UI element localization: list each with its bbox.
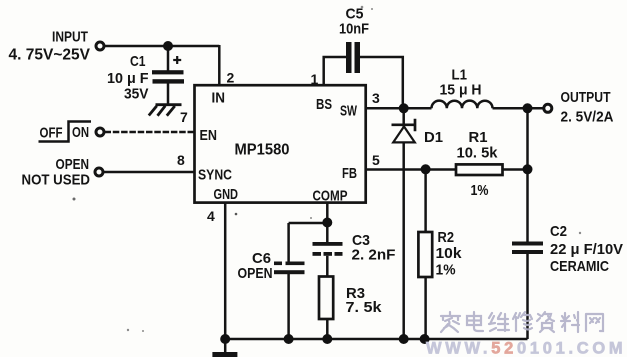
svg-text:R1: R1 [469,129,488,146]
svg-text:3: 3 [372,90,380,106]
svg-text:1: 1 [311,71,319,87]
svg-text:IN: IN [212,90,226,107]
svg-text:C1: C1 [130,53,146,70]
svg-text:2: 2 [227,69,235,85]
svg-text:INPUT: INPUT [52,29,88,46]
svg-text:10k: 10k [436,245,463,262]
svg-text:35V: 35V [124,86,149,103]
svg-text:GND: GND [214,186,239,203]
svg-text:4: 4 [207,208,215,224]
svg-text:OUTPUT: OUTPUT [561,90,611,106]
svg-text:1%: 1% [436,262,456,279]
svg-text:C2: C2 [550,223,567,240]
svg-text:1%: 1% [471,182,489,199]
svg-text:2. 2nF: 2. 2nF [352,247,396,264]
svg-text:NOT USED: NOT USED [22,172,91,189]
svg-text:OPEN: OPEN [238,265,273,282]
svg-text:WWW.520101.COM: WWW.520101.COM [426,340,626,357]
svg-text:4. 75V~25V: 4. 75V~25V [9,47,91,64]
svg-text:OFF: OFF [40,125,63,142]
svg-text:7: 7 [180,109,188,125]
svg-text:10. 5k: 10. 5k [457,145,499,162]
svg-text:7. 5k: 7. 5k [346,299,383,316]
svg-text:D1: D1 [424,129,443,146]
svg-text:SW: SW [340,103,358,120]
svg-text:8: 8 [177,152,185,168]
svg-text:ON: ON [72,124,89,141]
svg-text:CERAMIC: CERAMIC [550,258,609,275]
svg-text:MP1580: MP1580 [235,142,290,159]
svg-text:15 μ H: 15 μ H [440,82,482,99]
svg-text:10nF: 10nF [339,21,369,38]
svg-text:SYNC: SYNC [198,167,232,184]
svg-text:FB: FB [342,165,357,182]
svg-text:BS: BS [316,96,332,113]
svg-text:OPEN: OPEN [56,156,90,173]
svg-text:22 μ F/10V: 22 μ F/10V [550,241,623,258]
svg-text:2. 5V/2A: 2. 5V/2A [561,109,614,126]
svg-text:5: 5 [372,152,380,168]
svg-text:R2: R2 [438,229,455,246]
svg-text:COMP: COMP [313,188,348,205]
svg-text:10 μ F: 10 μ F [107,70,149,87]
svg-text:EN: EN [200,127,218,144]
